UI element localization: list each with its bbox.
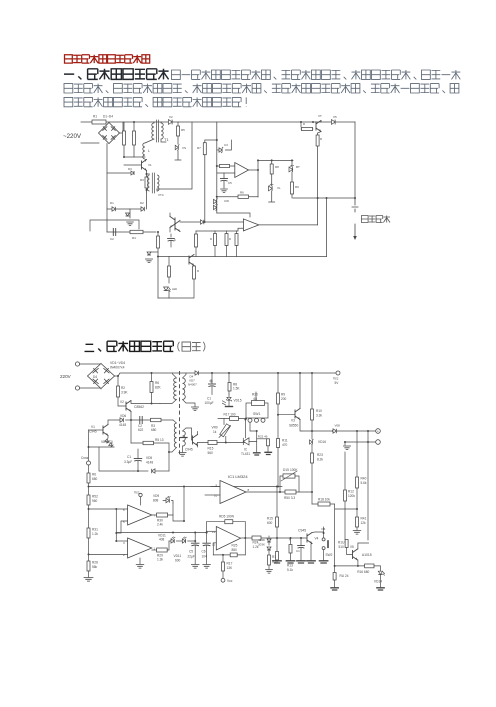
ground bbox=[127, 222, 134, 226]
resistor R11 bbox=[316, 135, 319, 146]
zener VD16 bbox=[311, 431, 313, 439]
svg-text:R6: R6 bbox=[92, 473, 96, 477]
wire x205 branch bbox=[205, 140, 217, 143]
svg-text:R4: R4 bbox=[132, 236, 136, 240]
svg-text:R3: R3 bbox=[140, 178, 144, 182]
terminal AC L bbox=[75, 362, 79, 366]
svg-text:S8550: S8550 bbox=[289, 424, 298, 428]
resistor R18 bbox=[311, 492, 313, 504]
svg-text:D2: D2 bbox=[140, 201, 144, 205]
diode VD3 bbox=[107, 172, 131, 174]
mid rail y486 bbox=[89, 486, 283, 488]
wire y471 row bbox=[99, 447, 134, 471]
resistor R28 bbox=[87, 561, 90, 571]
svg-text:960: 960 bbox=[92, 499, 98, 503]
wire output minus bbox=[345, 441, 376, 443]
svg-text:622: 622 bbox=[138, 428, 144, 432]
svg-text:R: R bbox=[320, 137, 322, 141]
svg-text:V2: V2 bbox=[169, 115, 173, 119]
wire opamp A minus bbox=[115, 509, 117, 541]
svg-text:4148: 4148 bbox=[146, 461, 153, 465]
resistor R9b bbox=[277, 373, 279, 393]
zener VD6 bbox=[175, 145, 179, 151]
resistor R5 bbox=[143, 441, 154, 444]
svg-text:R7: R7 bbox=[197, 146, 201, 150]
wire mid vertical x217 bbox=[216, 122, 218, 213]
wire U2 output bbox=[259, 224, 318, 226]
resistor R17 bbox=[193, 266, 196, 279]
diode VD5 bbox=[134, 470, 148, 472]
wire y447 bbox=[89, 446, 115, 448]
svg-text:4148: 4148 bbox=[258, 538, 265, 542]
wire left rail bbox=[88, 430, 90, 461]
svg-text:D6: D6 bbox=[322, 527, 326, 531]
wire opamp D bottom bbox=[213, 554, 245, 556]
svg-text:BT: BT bbox=[296, 165, 300, 169]
transformer T primary lower bbox=[174, 423, 176, 448]
svg-text:V5: V5 bbox=[350, 545, 354, 549]
resistor R6 bbox=[151, 373, 153, 382]
svg-text:VD16: VD16 bbox=[318, 440, 326, 444]
diode D4 bbox=[112, 207, 115, 211]
transformer T secondary upper bbox=[183, 378, 186, 400]
resistor R10 bbox=[291, 182, 294, 194]
resistor R16 bbox=[365, 564, 374, 568]
wire U1 minus input bbox=[217, 172, 235, 174]
zener VD9 bbox=[168, 257, 170, 267]
svg-text:880: 880 bbox=[232, 548, 238, 552]
potentiometer RP7 bbox=[334, 566, 336, 573]
diode VD12 bbox=[267, 539, 271, 542]
svg-text:R: R bbox=[210, 237, 212, 241]
svg-text:680: 680 bbox=[92, 477, 98, 481]
wire bottom loop bbox=[326, 198, 328, 257]
section heading 2 bold bbox=[85, 341, 174, 351]
transformer T2 feedback winding bbox=[147, 173, 150, 175]
wire snubber box bbox=[90, 220, 139, 231]
Vcc arrow opamp A bbox=[140, 497, 142, 505]
op-amp B bbox=[128, 538, 152, 558]
svg-text:104: 104 bbox=[202, 555, 208, 559]
svg-text:R6: R6 bbox=[240, 191, 244, 195]
svg-text:N4007: N4007 bbox=[188, 383, 197, 387]
svg-text:203K: 203K bbox=[258, 543, 265, 547]
page title (red) bbox=[65, 55, 150, 63]
svg-text:VD1~VD4: VD1~VD4 bbox=[110, 361, 125, 365]
ground bbox=[145, 259, 152, 263]
ground bbox=[254, 453, 261, 455]
resistor R2 bbox=[133, 122, 135, 157]
resistor R10b bbox=[311, 373, 313, 409]
svg-text:C3: C3 bbox=[224, 143, 228, 147]
resistor R12 bbox=[195, 234, 198, 247]
resistor R5 bbox=[177, 122, 179, 126]
svg-text:D3: D3 bbox=[128, 167, 132, 171]
ground bbox=[179, 453, 186, 457]
resistor R4 bbox=[130, 230, 143, 233]
op-amp D bbox=[216, 527, 240, 551]
svg-text:C945: C945 bbox=[89, 430, 97, 434]
wire opamp B inputs bbox=[116, 540, 127, 542]
svg-text:1.3k: 1.3k bbox=[157, 558, 163, 562]
potentiometer VR0 bbox=[220, 424, 231, 437]
svg-text:Vcc: Vcc bbox=[227, 579, 233, 583]
svg-text:R18 10k: R18 10k bbox=[318, 498, 330, 502]
svg-text:RU 24: RU 24 bbox=[340, 574, 349, 578]
resistor R3 bbox=[151, 418, 162, 421]
svg-text:560: 560 bbox=[208, 451, 214, 455]
svg-text:SW1: SW1 bbox=[253, 412, 260, 416]
resistor R24 bbox=[252, 536, 261, 540]
diode VD10 bbox=[333, 429, 336, 433]
transformer T1 secondary bbox=[161, 123, 163, 139]
resistor R8 bbox=[228, 373, 230, 383]
wire opamp D output bbox=[241, 537, 253, 539]
svg-text:V2: V2 bbox=[120, 400, 124, 404]
svg-text:680: 680 bbox=[151, 428, 157, 432]
wire bottom row 566 bbox=[335, 565, 365, 567]
transistor V2 bbox=[126, 401, 131, 412]
svg-text:R13: R13 bbox=[287, 564, 293, 568]
transistor V1 bbox=[124, 164, 142, 166]
diode VD7 bbox=[195, 371, 198, 375]
svg-text:C1: C1 bbox=[296, 549, 300, 553]
capacitor C6 bbox=[206, 533, 208, 544]
diode VD12b bbox=[267, 547, 271, 550]
wire secondary lower bottom bbox=[182, 446, 184, 452]
transistor Q4 bbox=[170, 217, 175, 228]
svg-text:VD11: VD11 bbox=[174, 554, 182, 558]
transformer T core dashed bbox=[179, 371, 181, 456]
svg-text:22µF: 22µF bbox=[188, 555, 195, 559]
resistor R2 bbox=[117, 376, 119, 386]
fuse R1 bbox=[92, 120, 106, 124]
svg-text:L: L bbox=[148, 149, 150, 153]
wire bridge out to rail bbox=[115, 373, 339, 376]
svg-text:3.3k: 3.3k bbox=[316, 414, 322, 418]
section heading 2 parenthetical bbox=[178, 342, 180, 352]
bridge rectifier VD1-VD4 bbox=[88, 364, 115, 389]
op-amp U1 bbox=[235, 163, 249, 178]
resistor R16 bbox=[157, 236, 160, 248]
transistor V4 bbox=[307, 533, 312, 544]
potentiometer RP6 feedback bbox=[207, 521, 246, 523]
svg-text:10: 10 bbox=[214, 494, 218, 498]
wire right feedback box bbox=[157, 122, 192, 189]
svg-text:TL431: TL431 bbox=[241, 452, 250, 456]
output terminal marks bbox=[352, 199, 358, 212]
svg-text:V3: V3 bbox=[291, 419, 295, 423]
inductor L bbox=[143, 143, 145, 159]
LED VL bbox=[269, 184, 274, 191]
label charging output bbox=[362, 216, 391, 223]
svg-text:R17: R17 bbox=[227, 562, 233, 566]
zener VZ1 bbox=[217, 149, 219, 151]
svg-text:100µF: 100µF bbox=[205, 401, 214, 405]
svg-text:R17 100: R17 100 bbox=[224, 413, 236, 417]
svg-text:R50 3.3: R50 3.3 bbox=[284, 496, 296, 500]
wire diode row bbox=[107, 208, 141, 210]
svg-text:R16 680: R16 680 bbox=[357, 570, 369, 574]
svg-text:5.6k: 5.6k bbox=[361, 481, 367, 485]
resistor R13 bbox=[290, 538, 292, 545]
svg-text:100K: 100K bbox=[290, 468, 298, 472]
svg-text:13K: 13K bbox=[227, 566, 234, 570]
svg-text:R25: R25 bbox=[232, 544, 238, 548]
resistor R14 bbox=[225, 234, 228, 246]
diode VD9 bbox=[166, 496, 170, 503]
transistor V5 bbox=[353, 549, 358, 560]
wire y198 row bbox=[293, 197, 355, 199]
wire output plus bbox=[302, 430, 376, 432]
wire IC1a output bbox=[246, 491, 285, 493]
switch SW2 bbox=[323, 527, 325, 538]
svg-text:1.2k: 1.2k bbox=[92, 532, 98, 536]
op-amp A bbox=[128, 505, 152, 525]
terminal output minus bbox=[376, 440, 381, 445]
transistor V1 bbox=[89, 429, 104, 431]
resistor R12b bbox=[87, 495, 90, 505]
svg-text:408: 408 bbox=[159, 538, 165, 542]
ground bbox=[344, 442, 346, 445]
capacitor C5 bbox=[223, 173, 225, 179]
svg-text:IN4007x4: IN4007x4 bbox=[110, 366, 125, 370]
svg-text:A1015: A1015 bbox=[362, 553, 372, 557]
resistor R50 bbox=[285, 490, 296, 494]
thyristor VS1 bbox=[291, 160, 293, 166]
resistor R13 bbox=[214, 234, 217, 246]
wire U2 plus input bbox=[180, 221, 201, 223]
svg-text:C8562: C8562 bbox=[134, 405, 144, 409]
svg-text:V1: V1 bbox=[91, 425, 95, 429]
transistor Q5 bbox=[175, 221, 180, 232]
svg-text:VD9: VD9 bbox=[153, 494, 159, 498]
wire sw1 to TL431 bbox=[244, 420, 246, 438]
svg-text:R40: R40 bbox=[361, 477, 367, 481]
wire opamp A plus bbox=[89, 508, 128, 510]
svg-text:12k: 12k bbox=[361, 521, 367, 525]
svg-text:~220V: ~220V bbox=[63, 133, 82, 140]
resistor R40 bbox=[356, 477, 359, 488]
wire right mid vertical bbox=[317, 133, 319, 225]
paragraph line2 bbox=[64, 84, 459, 93]
svg-text:R: R bbox=[197, 269, 199, 273]
svg-text:SW2: SW2 bbox=[326, 553, 333, 557]
terminal Vcc2 bbox=[221, 578, 225, 582]
svg-text:R10: R10 bbox=[316, 409, 322, 413]
svg-text:R9: R9 bbox=[295, 185, 299, 189]
wire IC1a inputs bbox=[213, 485, 282, 492]
resistor R12c bbox=[344, 452, 346, 490]
wire right verticals bbox=[356, 431, 358, 477]
wire AC to bridge bbox=[80, 364, 101, 390]
svg-text:VL: VL bbox=[277, 186, 281, 190]
svg-text:V4: V4 bbox=[315, 537, 319, 541]
diode VD11 bbox=[169, 540, 171, 542]
wire U1 output bbox=[249, 160, 259, 197]
resistor R14 bbox=[344, 509, 346, 540]
svg-text:VD5: VD5 bbox=[146, 456, 152, 460]
svg-text:Vcc: Vcc bbox=[333, 377, 339, 381]
wire AC input and top rail bbox=[81, 121, 355, 123]
resistor R17b bbox=[222, 555, 224, 562]
svg-text:510: 510 bbox=[339, 545, 345, 549]
svg-text:120k: 120k bbox=[348, 494, 355, 498]
bar mark bbox=[181, 437, 188, 439]
svg-text:D4: D4 bbox=[93, 375, 97, 379]
wire row538 bbox=[290, 537, 303, 539]
svg-text:R41: R41 bbox=[361, 517, 367, 521]
svg-text:R8: R8 bbox=[275, 165, 279, 169]
resistor R15b bbox=[208, 441, 217, 445]
svg-text:2.4k: 2.4k bbox=[157, 523, 163, 527]
resistor R20 bbox=[252, 401, 265, 406]
svg-text:1.5K: 1.5K bbox=[233, 387, 240, 391]
diode D7 bbox=[201, 220, 204, 224]
switch SW1 terminals bbox=[248, 418, 252, 422]
transistor VT on rail bbox=[301, 122, 313, 129]
resistor R3 bbox=[145, 177, 148, 188]
terminal AC N bbox=[75, 386, 79, 390]
svg-text:Vcc: Vcc bbox=[134, 491, 140, 495]
capacitor C5b bbox=[194, 533, 196, 544]
svg-text:R11: R11 bbox=[282, 439, 288, 443]
resistor R31 bbox=[87, 528, 90, 538]
capacitor C2 bbox=[113, 228, 115, 235]
svg-text:R28: R28 bbox=[92, 561, 98, 565]
svg-text:V1: V1 bbox=[148, 163, 152, 167]
op-amp U2 bbox=[243, 219, 258, 231]
transistor Q6 bbox=[189, 255, 194, 266]
svg-text:C5: C5 bbox=[228, 181, 232, 185]
svg-text:600: 600 bbox=[267, 521, 273, 525]
transformer T1 primary bbox=[153, 122, 155, 123]
capacitor C1 bbox=[137, 449, 139, 459]
svg-text:R23: R23 bbox=[317, 453, 323, 457]
diode VD6 bbox=[108, 420, 120, 425]
svg-text:VD14: VD14 bbox=[374, 580, 382, 584]
svg-text:470: 470 bbox=[282, 443, 288, 447]
svg-text:V5: V5 bbox=[333, 115, 337, 119]
resistor R29 out bbox=[167, 541, 169, 550]
resistor R29 bbox=[152, 549, 157, 551]
resistor R11 bbox=[277, 415, 279, 439]
svg-text:R6: R6 bbox=[155, 381, 159, 385]
svg-text:VD6: VD6 bbox=[120, 414, 126, 418]
bottom rail bbox=[158, 256, 327, 258]
svg-text:56k: 56k bbox=[92, 565, 98, 569]
resistor R19 bbox=[268, 555, 271, 565]
resistor R30 bbox=[152, 514, 157, 516]
resistor R23 bbox=[311, 453, 314, 463]
diode VD11b bbox=[176, 540, 182, 542]
capacitor C13 bbox=[300, 538, 302, 546]
svg-text:VR0: VR0 bbox=[212, 426, 218, 430]
svg-text:D1: D1 bbox=[110, 201, 114, 205]
wire feedback verticals bbox=[207, 522, 246, 555]
svg-text:C2: C2 bbox=[110, 237, 114, 241]
zener VD15 bbox=[228, 394, 230, 397]
resistor R6 feedback bbox=[217, 196, 258, 198]
transistor V3 shunt bbox=[129, 209, 131, 218]
resistor R8 bbox=[217, 165, 235, 167]
svg-text:D1~D4: D1~D4 bbox=[103, 115, 113, 119]
svg-text:808: 808 bbox=[153, 499, 159, 503]
svg-text:R5: R5 bbox=[181, 128, 185, 132]
terminal Vcc bbox=[336, 371, 340, 375]
wire V2 emitter row bbox=[131, 412, 173, 421]
svg-text:VT4: VT4 bbox=[158, 193, 164, 197]
svg-text:D15: D15 bbox=[283, 468, 289, 472]
svg-text:C: C bbox=[174, 238, 176, 242]
svg-text:200: 200 bbox=[281, 397, 287, 401]
transformer T2 core bbox=[152, 173, 154, 193]
svg-text:68: 68 bbox=[254, 397, 258, 401]
resistor R22 bbox=[257, 438, 268, 440]
zener CW2 bbox=[214, 205, 218, 211]
resistor R15 bbox=[235, 234, 238, 246]
svg-text:C5: C5 bbox=[189, 550, 193, 554]
wire left bottom vertical bbox=[157, 232, 159, 298]
paragraph line1 body bbox=[172, 70, 461, 79]
resistor R26 bbox=[276, 538, 278, 552]
capacitor C6 bbox=[170, 234, 172, 237]
terminal Cnss bbox=[87, 461, 91, 465]
transistor V3 bbox=[295, 409, 300, 420]
ground bbox=[331, 588, 338, 590]
resistor R15c bbox=[276, 487, 278, 518]
svg-text:R15: R15 bbox=[267, 517, 273, 521]
ground bbox=[377, 588, 384, 590]
wire secondary return bbox=[183, 400, 196, 407]
ground bbox=[353, 531, 361, 535]
svg-text:13: 13 bbox=[212, 530, 216, 534]
wire sw1 mid down bbox=[250, 422, 257, 452]
svg-text:R52: R52 bbox=[92, 495, 98, 499]
svg-text:VS: VS bbox=[182, 146, 186, 150]
wire bridge output bbox=[119, 122, 123, 133]
wire y160 node row bbox=[258, 159, 293, 161]
svg-text:R2: R2 bbox=[121, 386, 125, 390]
svg-text:R5 13: R5 13 bbox=[155, 438, 164, 442]
svg-text:5.1k: 5.1k bbox=[287, 568, 293, 572]
svg-text:1k: 1k bbox=[213, 430, 217, 434]
ground bbox=[191, 407, 198, 411]
shunt reg TL431 bbox=[243, 438, 249, 445]
diodes VD13 x2 bbox=[107, 436, 109, 439]
paragraph line3 bbox=[64, 97, 246, 106]
svg-text:3.3µF: 3.3µF bbox=[124, 460, 132, 464]
transformer T1 core bbox=[157, 120, 159, 142]
capacitor C1 bbox=[124, 122, 145, 157]
svg-text:600: 600 bbox=[175, 559, 181, 563]
resistor R9 bbox=[271, 160, 273, 164]
switch SW1 box bbox=[246, 403, 268, 418]
svg-text:220V: 220V bbox=[60, 374, 72, 379]
paragraph line1 bold lead bbox=[64, 69, 169, 80]
ground bbox=[265, 452, 272, 454]
svg-text:VD13(2): VD13(2) bbox=[101, 440, 113, 444]
svg-text:C6: C6 bbox=[202, 550, 206, 554]
svg-text:VD15: VD15 bbox=[234, 399, 242, 403]
diode D8 bbox=[151, 251, 158, 253]
ground opamp B bbox=[139, 558, 141, 564]
svg-text:C945: C945 bbox=[298, 529, 306, 533]
svg-text:8.2k: 8.2k bbox=[317, 458, 323, 462]
resistor R41 bbox=[356, 517, 359, 527]
diode V2 on rail bbox=[169, 120, 173, 125]
capacitor C2 bbox=[140, 417, 142, 424]
